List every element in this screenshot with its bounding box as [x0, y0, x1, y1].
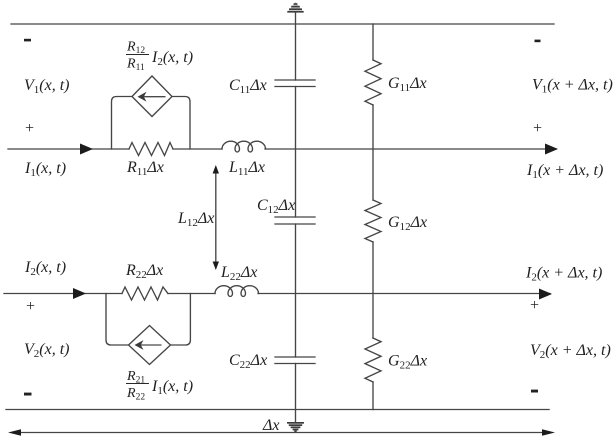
svg-text:V2(x, t): V2(x, t) [24, 341, 69, 360]
svg-text:+: + [529, 297, 540, 314]
svg-text:V1(x, t): V1(x, t) [24, 77, 69, 96]
svg-text:I1(x, t): I1(x, t) [151, 378, 193, 397]
svg-text:Δx: Δx [262, 417, 280, 434]
svg-text:I2(x, t): I2(x, t) [151, 49, 193, 68]
svg-text:I1(x + Δx, t): I1(x + Δx, t) [526, 162, 603, 181]
svg-text:+: + [532, 120, 543, 137]
svg-text:+: + [25, 298, 36, 315]
svg-text:I2(x + Δx, t): I2(x + Δx, t) [525, 265, 602, 284]
svg-text:I1(x, t): I1(x, t) [24, 160, 66, 179]
svg-text:I2(x, t): I2(x, t) [24, 259, 66, 278]
svg-text:+: + [24, 120, 35, 137]
